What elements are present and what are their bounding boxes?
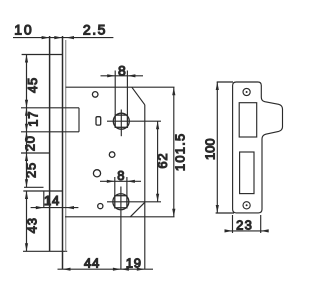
faceplate top edge xyxy=(22,54,63,56)
deadbolt top edge xyxy=(23,190,62,192)
dimension 8 (top) line xyxy=(101,75,144,77)
dimension 8 (bottom) extension lines xyxy=(114,177,116,196)
strike plate top screw hole xyxy=(243,88,250,95)
svg-text:23: 23 xyxy=(236,218,253,233)
top spindle vertical centerline xyxy=(120,110,122,137)
faceplate bottom edge xyxy=(23,250,67,252)
lock case bottom edge xyxy=(65,216,175,218)
svg-text:100: 100 xyxy=(203,138,218,160)
svg-text:17: 17 xyxy=(26,111,41,127)
chain arrows xyxy=(25,55,28,63)
latch cutout right edge xyxy=(78,108,80,132)
dimension 8 (bottom) line xyxy=(100,180,141,182)
faceplate left edge xyxy=(49,36,51,251)
svg-text:101.5: 101.5 xyxy=(173,133,188,172)
svg-text:43: 43 xyxy=(25,217,40,233)
extension line 20/25 boundary xyxy=(21,152,50,154)
screw post circle bottom xyxy=(98,204,103,209)
lock case right edge (extends down as extension line for 19) xyxy=(144,105,146,269)
lock case top-right chamfer xyxy=(132,87,145,105)
svg-text:8: 8 xyxy=(117,168,124,183)
bottom spindle square xyxy=(115,196,127,208)
dimension 101.5 line xyxy=(173,87,175,217)
dimension 100 line xyxy=(216,82,218,213)
screw post circle top-left xyxy=(92,92,98,98)
svg-text:14: 14 xyxy=(44,193,60,208)
svg-text:44: 44 xyxy=(84,256,100,271)
dimension 62 line xyxy=(157,121,159,202)
deadbolt left edge xyxy=(43,191,45,208)
dimension 14 line xyxy=(31,207,79,209)
bottom spindle circle xyxy=(113,194,129,210)
top spindle square xyxy=(115,115,127,127)
dimension 23 extension lines xyxy=(232,215,234,233)
top spindle horizontal centerline to 62 dim xyxy=(107,120,161,122)
dimension 8 (top) extension lines xyxy=(114,71,116,116)
arrow tip at case front xyxy=(66,36,74,39)
screw post circle left-mid xyxy=(93,170,100,177)
svg-text:8: 8 xyxy=(118,62,126,78)
bottom spindle vertical centerline, extends to 44 dim xyxy=(120,187,122,270)
strike plate latch cutout xyxy=(239,103,257,137)
lock case bottom-right chamfer xyxy=(130,202,145,217)
strike plate outline with lip xyxy=(233,82,283,213)
faceplate right edge (extends down as extension line for 44) xyxy=(62,36,64,269)
latch cutout bottom line xyxy=(21,131,79,133)
svg-text:19: 19 xyxy=(126,256,142,271)
svg-text:20: 20 xyxy=(23,135,38,151)
svg-text:10: 10 xyxy=(14,21,33,37)
left dimension chain line (43) xyxy=(26,191,28,251)
screw post circle center xyxy=(109,152,115,158)
lock case top edge xyxy=(66,86,175,88)
case front edge (gray) xyxy=(65,40,67,251)
dimension 100 extension lines xyxy=(217,81,233,83)
svg-text:62: 62 xyxy=(155,153,170,169)
latch cutout top line xyxy=(21,107,79,109)
strike plate bottom screw hole xyxy=(243,202,250,209)
arrow tip at faceplate right xyxy=(54,36,62,39)
bottom spindle horizontal centerline to 62 dim xyxy=(107,201,161,203)
dimension 23 line xyxy=(225,230,269,232)
strike plate deadbolt cutout xyxy=(240,152,254,194)
arrow tip at faceplate left xyxy=(42,36,50,39)
dimension line 10 / 2.5 (top) xyxy=(13,37,113,39)
extension line 25 bottom xyxy=(24,186,44,188)
dimension 44 / 19 line (bottom) xyxy=(58,268,154,270)
top spindle circle xyxy=(113,113,129,129)
slot xyxy=(96,117,101,125)
left dimension chain line (45/17/20/25) xyxy=(26,55,28,188)
svg-text:45: 45 xyxy=(25,77,40,93)
svg-text:25: 25 xyxy=(24,162,39,178)
svg-text:2.5: 2.5 xyxy=(83,21,107,37)
